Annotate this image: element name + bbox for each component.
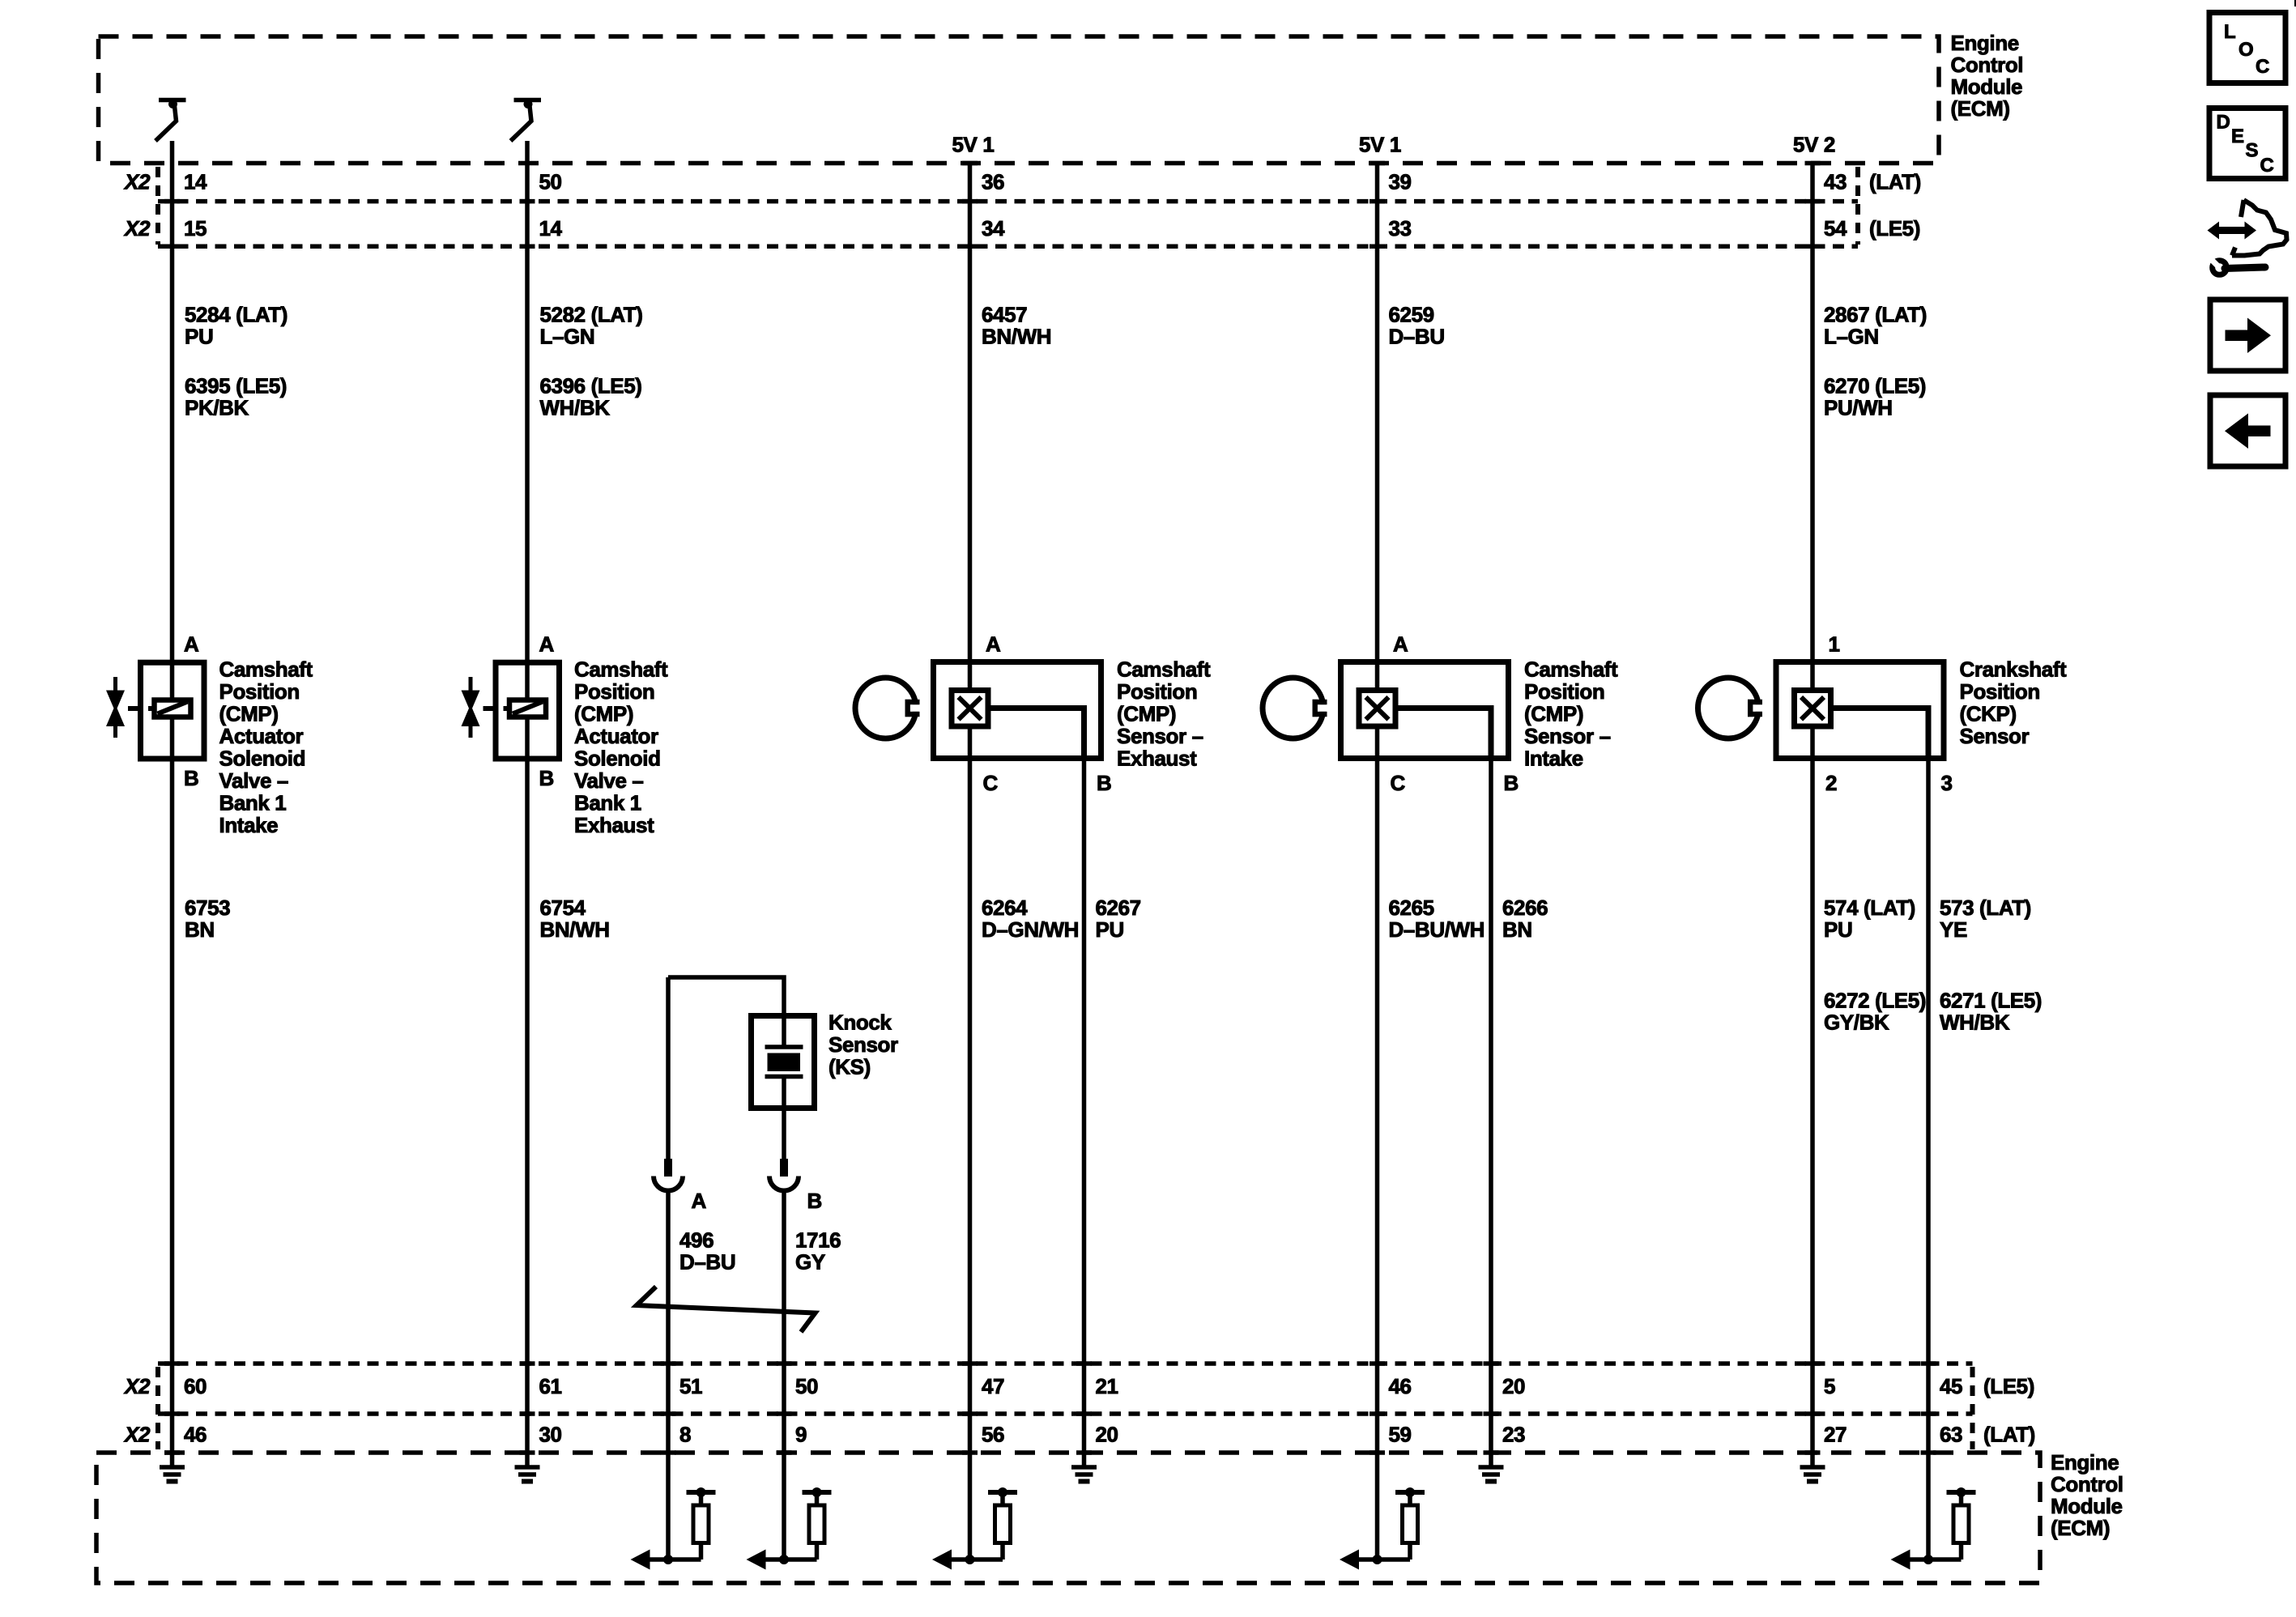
svg-text:Exhaust: Exhaust [574,813,654,837]
pin A solenoid exhaust [539,632,555,657]
pin 1 CKP sensor [1829,632,1840,657]
svg-text:(KS): (KS) [829,1055,871,1079]
svg-text:6272 (LE5): 6272 (LE5) [1824,989,1926,1013]
driver switch 2 (ECM low-side driver, bank1 exhaust solenoid) [511,100,542,141]
svg-text:45: 45 [1940,1374,1962,1398]
crankshaft position (CKP) sensor [1776,662,1944,762]
camshaft position (CMP) sensor intake [1341,662,1509,762]
svg-text:5282 (LAT): 5282 (LAT) [540,303,643,327]
LOC navigation icon [2209,13,2285,83]
ECM pin 34 (LE5 row top) [982,216,1005,240]
svg-text:PU: PU [1096,917,1124,942]
wire label 574 (LAT) PU [1824,896,1915,942]
ECM pin 36 (LAT row top) [982,170,1004,194]
svg-text:3: 3 [1941,771,1953,795]
ECM pin 21 (LE5 row bottom) [1096,1374,1118,1398]
svg-text:574 (LAT): 574 (LAT) [1824,896,1915,920]
camshaft position (CMP) sensor exhaust [934,662,1101,762]
wire 496 D-BU knock sensor feed [668,977,784,1159]
svg-text:B: B [807,1189,822,1213]
wire 5282/6396 (solenoid exhaust control) [525,141,530,1467]
net 5V 2 (CKP) [1793,133,1835,157]
svg-text:A: A [1393,632,1408,657]
ECM pin 14 (LAT row top) [184,170,207,194]
svg-text:(ECM): (ECM) [2051,1516,2110,1540]
ECM pin 59 (LAT row bottom) [1389,1423,1412,1447]
svg-text:46: 46 [184,1423,207,1447]
ECM pin 46 (LAT row bottom) [184,1423,207,1447]
svg-text:8: 8 [679,1423,691,1447]
resistor pull-up and bus arrow (knock 496) [631,1487,716,1570]
svg-text:14: 14 [539,216,563,240]
pin B CMP sensor intake [1504,771,1519,795]
svg-text:6395 (LE5): 6395 (LE5) [185,374,287,398]
svg-text:BN/WH: BN/WH [982,325,1051,349]
ECM label bottom [2051,1450,2123,1540]
svg-text:Bank 1: Bank 1 [219,791,287,815]
svg-text:6754: 6754 [540,896,586,920]
svg-text:(CMP): (CMP) [574,702,633,726]
svg-text:Position: Position [1960,679,2040,704]
svg-text:33: 33 [1389,216,1412,240]
svg-text:30: 30 [539,1423,562,1447]
svg-text:X2: X2 [123,170,151,194]
svg-text:A: A [184,632,199,657]
wire 573/6271 (CKP signal) [1926,761,1931,1560]
svg-text:Control: Control [2051,1472,2123,1496]
svg-text:5V 2: 5V 2 [1793,133,1835,157]
ground (CMP intake signal termination) [1479,1467,1504,1482]
svg-text:Position: Position [574,679,654,704]
svg-text:496: 496 [679,1228,714,1253]
svg-text:GY: GY [795,1250,825,1274]
wire label 5282 (LAT) L-GN [540,303,643,349]
wire label 6265 D-BU/WH [1389,896,1485,942]
svg-text:Exhaust: Exhaust [1117,747,1197,771]
CMP sensor exhaust reluctor wheel [855,678,923,738]
wire 2867/6270 (CKP 5V ref) [1810,164,1815,1468]
svg-text:36: 36 [982,170,1004,194]
svg-text:61: 61 [539,1374,562,1398]
pin B knock connector label [807,1189,822,1213]
svg-text:63: 63 [1940,1423,1962,1447]
svg-text:X2: X2 [123,216,151,240]
svg-text:6259: 6259 [1389,303,1434,327]
inline connector B knock sensor [769,1159,799,1191]
svg-text:WH/BK: WH/BK [1940,1011,2010,1035]
svg-text:34: 34 [982,216,1005,240]
wire label 6754 BN/WH [540,896,610,942]
wire 1716 GY knock sensor return [782,1111,786,1159]
svg-text:1: 1 [1829,632,1840,657]
svg-text:Sensor –: Sensor – [1524,724,1611,748]
DESC navigation icon [2209,109,2285,179]
svg-text:(CKP): (CKP) [1960,702,2017,726]
svg-text:9: 9 [795,1423,807,1447]
svg-text:6271 (LE5): 6271 (LE5) [1940,989,2042,1013]
svg-text:573 (LAT): 573 (LAT) [1940,896,2031,920]
pin B CMP sensor exhaust [1097,771,1111,795]
resistor pull-up and bus arrow (CKP signal) [1891,1487,1976,1570]
svg-text:(LAT): (LAT) [1983,1423,2035,1447]
label CMP sensor exhaust [1117,657,1211,771]
svg-text:Actuator: Actuator [219,724,304,748]
svg-text:GY/BK: GY/BK [1824,1011,1889,1035]
svg-text:PU: PU [185,325,213,349]
svg-text:51: 51 [679,1374,702,1398]
svg-text:Module: Module [1951,74,2023,99]
svg-text:A: A [692,1189,707,1213]
CKP sensor reluctor wheel [1698,678,1766,738]
connector X2 label row2 (top) [123,216,151,240]
ground (CKP 5V ref termination) [1800,1467,1825,1482]
ground (solenoid exhaust low ref) [515,1467,540,1482]
Engine Control Module (ECM) top dashed box [99,36,1940,164]
ECM pin 23 (LAT row bottom) [1502,1423,1525,1447]
resistor pull-up and bus arrow (CMP exhaust 5V) [932,1487,1017,1570]
svg-text:6753: 6753 [185,896,230,920]
svg-text:C: C [2260,155,2274,177]
ECM connector row divider (top, LAT/LE5) [158,199,1858,204]
svg-text:43: 43 [1824,170,1847,194]
svg-text:59: 59 [1389,1423,1412,1447]
wire label 6457 BN/WH [982,303,1051,349]
svg-text:A: A [986,632,1001,657]
svg-text:39: 39 [1389,170,1412,194]
wire label 6395 (LE5) PK/BK [185,374,287,420]
wire 6457 BN/WH (CMP exhaust 5V ref) [968,164,973,1560]
wire label 573 (LAT) YE [1940,896,2031,942]
page corner tick [2294,0,2296,6]
svg-text:Sensor –: Sensor – [1117,724,1203,748]
svg-text:D–GN/WH: D–GN/WH [982,917,1079,942]
pin 2 CKP sensor [1825,771,1837,795]
svg-text:Sensor: Sensor [829,1032,898,1057]
harness variant label (LE5) top [1869,216,1920,240]
svg-text:6264: 6264 [982,896,1028,920]
svg-text:O: O [2238,39,2253,61]
wire label 6753 BN [185,896,230,942]
ECM pin 47 (LE5 row bottom) [982,1374,1004,1398]
ECM pin 33 (LE5 row top) [1389,216,1412,240]
svg-text:Position: Position [1524,679,1604,704]
net 5V 1 (CMP exhaust) [952,133,995,157]
svg-text:20: 20 [1502,1374,1525,1398]
svg-text:Valve –: Valve – [219,768,288,793]
svg-text:6270 (LE5): 6270 (LE5) [1824,374,1926,398]
resistor pull-up and bus arrow (CMP intake 5V) [1340,1487,1425,1570]
ECM connector row top line (bottom, LE5) [158,1361,1973,1366]
svg-text:(CMP): (CMP) [1117,702,1176,726]
wire 6267 PU (CMP exhaust signal) [1082,761,1087,1467]
svg-text:BN: BN [185,917,215,942]
svg-text:2: 2 [1825,771,1837,795]
svg-text:6266: 6266 [1502,896,1548,920]
svg-text:14: 14 [184,170,207,194]
svg-text:Camshaft: Camshaft [1524,657,1618,682]
wire label 496 D-BU [679,1228,735,1274]
ECM pin 27 (LAT row bottom) [1824,1423,1847,1447]
ECM pin 9 (LAT row bottom) [795,1423,807,1447]
pin B solenoid exhaust [539,766,554,790]
svg-text:2867 (LAT): 2867 (LAT) [1824,303,1927,327]
wire label 6396 (LE5) WH/BK [540,374,642,420]
svg-text:23: 23 [1502,1423,1525,1447]
svg-text:27: 27 [1824,1423,1847,1447]
svg-text:Intake: Intake [1524,747,1583,771]
svg-text:L–GN: L–GN [540,325,595,349]
ECM pin 50 (LE5 row bottom) [795,1374,818,1398]
svg-text:B: B [1504,771,1519,795]
camshaft position (CMP) actuator solenoid valve bank 1 exhaust [462,662,560,759]
harness variant label (LAT) top [1869,170,1921,194]
wire label 6266 BN [1502,896,1548,942]
svg-text:D–BU: D–BU [1389,325,1445,349]
wire 5284/6395 PU (solenoid intake control) [170,141,175,1467]
svg-text:Engine: Engine [2051,1450,2119,1474]
svg-text:Camshaft: Camshaft [574,657,668,682]
wire label 2867 (LAT) L-GN [1824,303,1927,349]
svg-text:B: B [539,766,554,790]
ECM pin 61 (LE5 row bottom) [539,1374,562,1398]
ECM pin 46 (LE5 row bottom) [1389,1374,1412,1398]
svg-text:5: 5 [1824,1374,1835,1398]
svg-text:Intake: Intake [219,813,279,837]
svg-text:C: C [2256,56,2269,78]
svg-text:A: A [539,632,555,657]
wire label 6271 (LE5) WH/BK [1940,989,2042,1035]
svg-text:Bank 1: Bank 1 [574,791,641,815]
wire label 6267 PU [1096,896,1141,942]
svg-text:D: D [2217,112,2230,134]
svg-text:56: 56 [982,1423,1004,1447]
pin C CMP sensor exhaust [983,771,999,795]
label CMP sensor intake [1524,657,1618,771]
svg-text:(CMP): (CMP) [1524,702,1583,726]
svg-text:(LAT): (LAT) [1869,170,1921,194]
ECM pin 50 (LAT row top) [539,170,562,194]
ECM pin 51 (LE5 row bottom) [679,1374,702,1398]
ECM pin 60 (LE5 row bottom) [184,1374,207,1398]
svg-text:6457: 6457 [982,303,1027,327]
svg-text:WH/BK: WH/BK [540,396,611,420]
svg-text:Position: Position [219,679,300,704]
wire label 6259 D-BU [1389,303,1445,349]
ECM pin 20 (LE5 row bottom) [1502,1374,1525,1398]
connector X2 label row1 (bottom) [123,1374,151,1398]
wire segment below connector B [782,1190,786,1560]
wire label 1716 GY [795,1228,841,1274]
ECM pin 15 (LE5 row top) [184,216,207,240]
ECM pin 56 (LAT row bottom) [982,1423,1004,1447]
svg-text:BN/WH: BN/WH [540,917,610,942]
svg-text:5V 1: 5V 1 [952,133,995,157]
svg-text:6265: 6265 [1389,896,1434,920]
svg-text:E: E [2231,126,2244,147]
svg-text:50: 50 [795,1374,818,1398]
svg-text:5V 1: 5V 1 [1359,133,1401,157]
svg-text:B: B [1097,771,1111,795]
svg-text:YE: YE [1940,917,1967,942]
label CKP sensor [1960,657,2068,749]
svg-text:5284 (LAT): 5284 (LAT) [185,303,288,327]
svg-text:PK/BK: PK/BK [185,396,249,420]
ECM label top [1951,31,2024,121]
CMP sensor intake reluctor wheel [1263,678,1331,738]
wire label 6264 D-GN/WH [982,896,1079,942]
ECM pin 8 (LAT row bottom) [679,1423,691,1447]
ground (CMP exhaust signal termination) [1071,1467,1097,1482]
ECM pin 45 (LE5 row bottom) [1940,1374,1962,1398]
forward navigation icon [2210,300,2285,371]
svg-text:21: 21 [1096,1374,1118,1398]
svg-text:Crankshaft: Crankshaft [1960,657,2068,682]
knock sensor (KS) [752,1013,815,1111]
svg-text:(ECM): (ECM) [1951,96,2010,121]
label CMP actuator solenoid valve bank 1 intake [219,657,313,838]
svg-text:B: B [184,766,198,790]
ground (solenoid intake low ref) [160,1467,185,1482]
svg-text:D–BU/WH: D–BU/WH [1389,917,1485,942]
svg-text:Solenoid: Solenoid [574,747,661,771]
svg-text:Camshaft: Camshaft [219,657,313,682]
wire label 6272 (LE5) GY/BK [1824,989,1926,1035]
svg-text:(LE5): (LE5) [1983,1374,2034,1398]
label knock sensor [829,1011,898,1079]
wire label 5284 (LAT) PU [185,303,288,349]
wire 6259 D-BU (CMP intake 5V ref) [1375,164,1380,1560]
svg-text:C: C [1391,771,1406,795]
inline connector A knock sensor [654,1159,683,1191]
svg-text:50: 50 [539,170,562,194]
svg-text:(LE5): (LE5) [1869,216,1920,240]
ECM pin 14 (LE5 row top) [539,216,563,240]
svg-text:BN: BN [1502,917,1532,942]
ECM connector row bottom line (top) [158,245,1858,249]
label CMP actuator solenoid valve bank 1 exhaust [574,657,668,838]
svg-text:6396 (LE5): 6396 (LE5) [540,374,642,398]
ECM pin 63 (LAT row bottom) [1940,1423,1962,1447]
connector variant separator right (top) [1855,167,1860,245]
svg-text:L–GN: L–GN [1824,325,1879,349]
driver switch 1 (ECM low-side driver, bank1 intake solenoid) [155,100,186,141]
wire label 6270 (LE5) PU/WH [1824,374,1926,420]
ECM pin 20 (LAT row bottom) [1096,1423,1118,1447]
twisted pair crossing symbol [637,1287,816,1332]
ECM connector row divider (bottom) [158,1411,1973,1416]
svg-text:54: 54 [1824,216,1847,240]
connector X2 label row2 (bottom) [123,1423,151,1447]
svg-text:X2: X2 [123,1374,151,1398]
Engine Control Module (ECM) bottom dashed box [96,1453,2040,1583]
back navigation icon [2210,395,2285,466]
svg-text:Actuator: Actuator [574,724,658,748]
pin C CMP sensor intake [1391,771,1406,795]
wire crossing dashes at ECM box bottom line [962,161,1821,166]
svg-text:PU: PU [1824,917,1852,942]
resistor pull-up and bus arrow (knock 1716) [747,1487,832,1570]
svg-text:Solenoid: Solenoid [219,747,306,771]
camshaft position (CMP) actuator solenoid valve bank 1 intake [106,662,204,759]
connector variant separator right (bottom) [1970,1367,1975,1449]
svg-text:Valve –: Valve – [574,768,643,793]
svg-text:D–BU: D–BU [679,1250,735,1274]
svg-text:PU/WH: PU/WH [1824,396,1893,420]
pin B solenoid intake [184,766,198,790]
svg-text:L: L [2224,21,2235,43]
svg-text:Control: Control [1951,53,2024,77]
svg-text:(CMP): (CMP) [219,702,279,726]
svg-text:Engine: Engine [1951,31,2019,55]
wire segment below connector A [666,1190,671,1560]
pin 3 CKP sensor [1941,771,1953,795]
svg-text:1716: 1716 [795,1228,841,1253]
harness variant label (LAT) bottom [1983,1423,2035,1447]
ECM pin 30 (LAT row bottom) [539,1423,562,1447]
svg-text:Position: Position [1117,679,1197,704]
pin A knock connector label [692,1189,707,1213]
component location/service icon (engine + wrench) [2208,200,2287,274]
pin A CMP sensor exhaust [986,632,1001,657]
svg-text:Knock: Knock [829,1011,892,1035]
svg-text:46: 46 [1389,1374,1412,1398]
svg-text:S: S [2246,140,2259,162]
svg-text:C: C [983,771,999,795]
pin A solenoid intake [184,632,199,657]
connector X2 separator left (top) [155,167,160,245]
svg-text:X2: X2 [123,1423,151,1447]
pin A CMP sensor intake [1393,632,1408,657]
svg-text:Sensor: Sensor [1960,724,2030,748]
harness variant label (LE5) bottom [1983,1374,2034,1398]
svg-text:6267: 6267 [1096,896,1141,920]
svg-text:Module: Module [2051,1494,2123,1518]
ECM pin 54 (LE5 row top) [1824,216,1847,240]
wire 6266 BN (CMP intake signal) [1489,761,1493,1467]
svg-text:Camshaft: Camshaft [1117,657,1211,682]
ECM pin 43 (LAT row top) [1824,170,1847,194]
net 5V 1 (CMP intake) [1359,133,1401,157]
connector X2 label row1 (top) [123,170,151,194]
svg-text:60: 60 [184,1374,207,1398]
svg-text:15: 15 [184,216,207,240]
ECM pin 5 (LE5 row bottom) [1824,1374,1835,1398]
svg-text:20: 20 [1096,1423,1118,1447]
connector X2 separator left (bottom) [155,1367,160,1449]
svg-text:47: 47 [982,1374,1004,1398]
ECM pin 39 (LAT row top) [1389,170,1412,194]
